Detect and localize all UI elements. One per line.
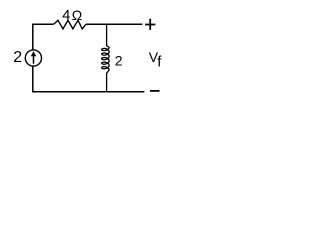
wire bottom horizontal: [33, 91, 145, 93]
current source I1 circle: [25, 50, 41, 66]
current source arrow: [33, 55, 35, 64]
wire top-right horizontal: [86, 23, 143, 25]
wire left vertical (below source): [32, 66, 34, 92]
inductor L1 coil: [102, 24, 109, 92]
wire left vertical (above source): [32, 24, 34, 50]
terminal minus sign: [150, 90, 160, 92]
svg-text:2: 2: [115, 53, 123, 69]
wire top-left horizontal: [33, 23, 54, 25]
svg-text:f: f: [157, 54, 162, 71]
resistor R1 zigzag: [53, 20, 85, 29]
terminal plus sign: [145, 19, 155, 30]
svg-text:Ω: Ω: [72, 7, 82, 23]
svg-text:2: 2: [13, 49, 22, 66]
svg-text:4: 4: [62, 8, 70, 24]
